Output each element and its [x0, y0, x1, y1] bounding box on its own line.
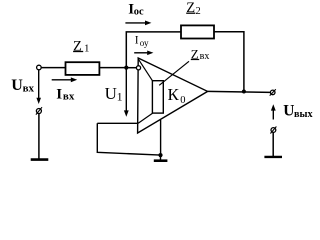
arrow: U_1 direction (down from summing node)	[125, 68, 127, 112]
node: feedback/output junction	[242, 90, 246, 94]
op-amp triangle K0	[138, 58, 208, 133]
wire: Z2 to output node	[214, 32, 244, 92]
svg-text:вх: вх	[63, 91, 75, 103]
arrow: I_vx current direction	[52, 79, 73, 81]
wire: lower op-amp input	[97, 122, 138, 124]
svg-text:вх: вх	[23, 82, 35, 94]
wire: feedback vertical + top run to Z2	[126, 32, 181, 68]
input lower terminal (circle with slash)	[36, 109, 41, 114]
node: summing junction	[124, 66, 128, 70]
resistor Z2	[181, 25, 214, 38]
svg-text:1: 1	[117, 89, 123, 103]
svg-text:U: U	[105, 84, 117, 103]
arrow: U_vx direction (down)	[38, 70, 40, 100]
svg-text:0: 0	[180, 95, 185, 106]
ground (middle)	[154, 159, 168, 162]
svg-text:2: 2	[196, 6, 201, 17]
wire: lower input lead inside triangle	[138, 113, 153, 123]
wire: input terminal to Z1	[41, 67, 65, 69]
arrow: I_oy current direction	[134, 52, 149, 54]
wire: lower terminal to ground	[38, 114, 40, 159]
impedance Z_vx rectangle inside op-amp	[152, 81, 163, 113]
svg-text:I: I	[135, 35, 139, 47]
output terminal (circle with slash)	[270, 90, 275, 95]
op-amp input open circle	[136, 66, 140, 70]
leader line from Z_vx label	[159, 61, 189, 85]
svg-text:вх: вх	[200, 51, 210, 62]
input terminal circle	[37, 65, 42, 70]
wire: Z1 to summing node	[99, 67, 126, 69]
svg-text:оу: оу	[140, 38, 149, 48]
arrow: U_vyx direction (up)	[272, 109, 274, 120]
svg-text:U: U	[11, 77, 23, 94]
node: ground junction	[158, 153, 162, 157]
svg-text:вых: вых	[294, 109, 313, 120]
wire: op-amp output to terminal	[208, 91, 271, 92]
wire: Z_vx bottom to ground node	[160, 120, 162, 155]
svg-text:I: I	[56, 87, 62, 103]
wire: inverting input lead into triangle	[138, 59, 152, 81]
arrow: I_oc current direction	[125, 22, 147, 24]
ground (left)	[31, 158, 49, 161]
wire: lower output terminal to ground	[272, 132, 274, 156]
svg-text:U: U	[283, 102, 294, 119]
wire: lower input loop to ground node	[97, 123, 160, 155]
output lower terminal (circle with slash)	[271, 128, 276, 133]
svg-text:1: 1	[84, 43, 90, 55]
svg-text:К: К	[168, 85, 180, 104]
resistor Z1	[66, 62, 100, 75]
ground (right)	[264, 156, 282, 158]
wire: summing node to op-amp input	[126, 67, 136, 69]
wire to middle ground	[160, 155, 162, 160]
svg-text:ос: ос	[134, 6, 144, 17]
